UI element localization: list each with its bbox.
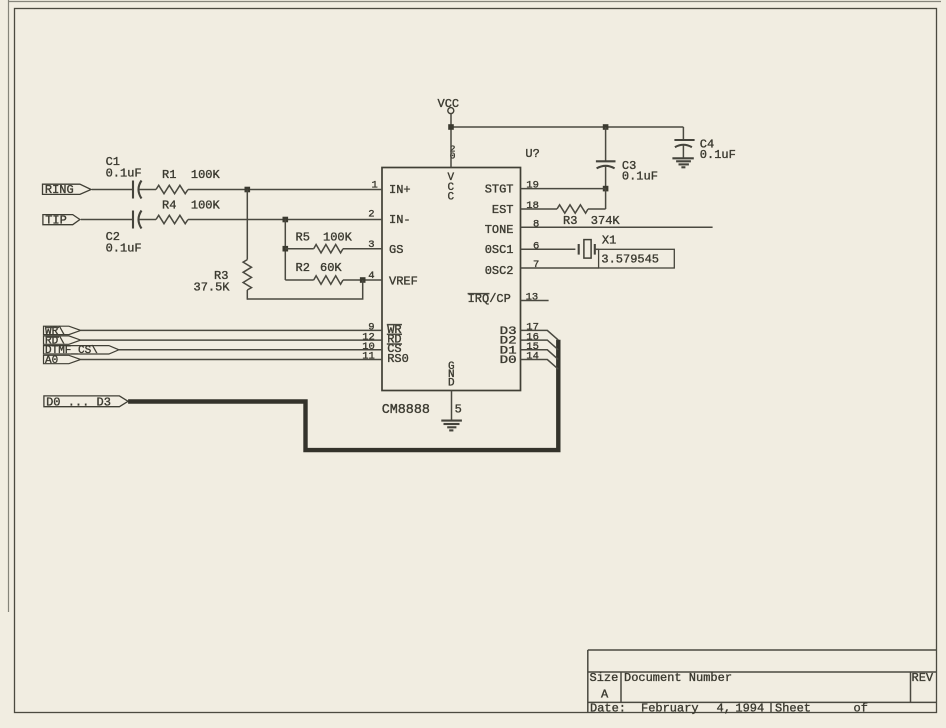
wire junction down to R3 xyxy=(246,190,248,260)
svg-text:Document Number: Document Number xyxy=(624,671,732,685)
wire VREF junction down and left to R3 xyxy=(247,280,362,299)
wire IRQ/CP pin 13 xyxy=(521,300,549,302)
wire A0 to pin 11 xyxy=(81,359,382,361)
power VCC xyxy=(438,97,460,127)
svg-text:D0 ... D3: D0 ... D3 xyxy=(46,395,111,409)
capacitor C1 xyxy=(106,155,142,199)
svg-text:IN+: IN+ xyxy=(389,183,411,197)
svg-text:R3: R3 xyxy=(563,214,577,228)
wire vertical junction to R5/R2 xyxy=(284,220,286,281)
svg-text:REV: REV xyxy=(912,671,934,685)
svg-text:February: February xyxy=(641,702,699,716)
svg-text:D: D xyxy=(448,378,455,390)
svg-text:R5: R5 xyxy=(296,231,310,245)
resistor R4 100K xyxy=(156,199,221,224)
wire C2 to R4 xyxy=(139,219,156,221)
svg-text:STGT: STGT xyxy=(485,183,514,197)
wire TONE pin 8 xyxy=(521,226,713,228)
capacitor C2 xyxy=(106,211,142,256)
bus D0..D3 xyxy=(128,340,558,450)
svg-text:0.1uF: 0.1uF xyxy=(622,170,658,184)
resistor R3 374K xyxy=(557,205,620,228)
svg-text:3.579545: 3.579545 xyxy=(601,252,659,266)
wire R3 to bottom rail xyxy=(246,290,248,300)
SCAN EDGES xyxy=(8,1,941,3)
junction R5 tap xyxy=(283,246,289,252)
wire D1 pin 15 xyxy=(521,350,559,360)
svg-text:of: of xyxy=(854,702,868,716)
svg-text:1994: 1994 xyxy=(735,702,764,716)
IC U? CM8888 xyxy=(382,147,540,418)
svg-text:R1: R1 xyxy=(162,168,176,182)
crystal X1 3.579545 xyxy=(579,234,675,268)
wire R5 to pin 3 xyxy=(343,248,382,250)
svg-text:VREF: VREF xyxy=(389,275,418,289)
svg-text:U?: U? xyxy=(525,147,539,161)
wire OSC2 pin 7 xyxy=(521,267,599,269)
svg-text:Size: Size xyxy=(590,671,619,685)
connector RING xyxy=(43,183,92,197)
resistor R1 100K xyxy=(156,168,221,194)
svg-text:RS0: RS0 xyxy=(387,352,409,366)
title block xyxy=(588,650,937,716)
svg-text:14: 14 xyxy=(526,351,539,363)
wire WR to pin 9 xyxy=(81,329,382,331)
wire VCC rail xyxy=(451,126,683,128)
wire STGT pin 19 xyxy=(521,188,606,190)
wire C1 to R1 xyxy=(139,189,156,191)
wire R3 to C3 node xyxy=(588,208,606,210)
svg-text:100K: 100K xyxy=(191,168,221,182)
connector D0 ... D3 xyxy=(44,395,128,409)
svg-text:374K: 374K xyxy=(591,214,621,228)
wire R5 left stub xyxy=(285,248,313,250)
svg-text:GS: GS xyxy=(389,243,403,257)
svg-text:X1: X1 xyxy=(602,234,616,248)
junction R1/R3 xyxy=(245,187,251,193)
svg-text:0.1uF: 0.1uF xyxy=(106,167,142,181)
resistor R5 100K xyxy=(296,231,353,253)
capacitor C3 xyxy=(596,127,658,189)
resistor R3 37.5K xyxy=(194,260,252,295)
wire EST pin 18 xyxy=(521,208,558,210)
IC left pin names xyxy=(387,183,418,366)
svg-text:18: 18 xyxy=(526,200,539,212)
svg-text:CM8888: CM8888 xyxy=(382,403,430,418)
ground under C4 xyxy=(672,158,693,167)
junction VREF xyxy=(360,277,366,283)
wire VCC stub to IC pin 20 xyxy=(450,127,452,168)
IC right pin names xyxy=(468,183,518,368)
svg-text:RING: RING xyxy=(45,183,74,197)
connector DTMF_CS xyxy=(44,345,119,357)
wire RD to pin 12 xyxy=(81,339,382,341)
svg-text:C: C xyxy=(448,191,455,203)
svg-text:0SC2: 0SC2 xyxy=(485,264,514,278)
svg-text:Sheet: Sheet xyxy=(775,702,811,716)
svg-text:0.1uF: 0.1uF xyxy=(700,148,736,162)
svg-text:8: 8 xyxy=(533,218,539,230)
svg-text:37.5K: 37.5K xyxy=(194,281,231,295)
junction C3 top xyxy=(603,124,609,130)
junction IN- xyxy=(283,217,289,223)
connector TIP xyxy=(43,213,80,227)
svg-text:6: 6 xyxy=(533,240,539,252)
svg-text:100K: 100K xyxy=(323,231,353,245)
wire D3 pin 17 xyxy=(521,330,559,340)
svg-text:5: 5 xyxy=(455,403,462,417)
wire DTMF_CS to pin 10 xyxy=(119,349,382,351)
wire C3 junction down to R3 xyxy=(605,189,607,209)
svg-text:0.1uF: 0.1uF xyxy=(106,242,142,256)
capacitor C4 xyxy=(674,127,735,162)
svg-text:EST: EST xyxy=(492,203,514,217)
IC pin name GND (stacked) xyxy=(448,361,455,390)
svg-text:100K: 100K xyxy=(191,199,221,213)
wire R4 to pin 2 xyxy=(188,219,382,221)
wire R2 to pin 4 xyxy=(343,279,382,281)
svg-text:A: A xyxy=(601,688,609,702)
svg-text:R2: R2 xyxy=(296,261,310,275)
svg-text:IN-: IN- xyxy=(389,213,411,227)
resistor R2 60K xyxy=(296,261,344,284)
connector RD xyxy=(44,336,81,348)
IC pin name VCC (stacked) xyxy=(448,172,455,204)
wire RING to C1 xyxy=(92,189,133,191)
wire R1 to pin 1 xyxy=(188,189,382,191)
svg-text:0SC1: 0SC1 xyxy=(485,243,514,257)
svg-text:60K: 60K xyxy=(320,261,342,275)
wire R2 left stub xyxy=(285,279,313,281)
wire GND pin 5 xyxy=(451,391,453,421)
svg-text:A0: A0 xyxy=(45,355,58,367)
svg-text:13: 13 xyxy=(526,292,539,304)
svg-text:Date:: Date: xyxy=(590,702,626,716)
ground under pin 5 xyxy=(441,421,462,431)
svg-text:4,: 4, xyxy=(717,702,731,716)
svg-text:11: 11 xyxy=(362,351,375,363)
connector A0 xyxy=(44,355,81,367)
wire TIP to C2 xyxy=(81,219,133,221)
wire D0 pin 14 xyxy=(521,360,559,370)
svg-text:7: 7 xyxy=(533,259,539,271)
svg-text:2: 2 xyxy=(368,209,374,221)
svg-text:D0: D0 xyxy=(500,355,517,367)
svg-text:R4: R4 xyxy=(162,199,176,213)
junction C3 bottom / STGT xyxy=(603,186,609,192)
svg-text:19: 19 xyxy=(526,180,539,192)
wire D2 pin 16 xyxy=(521,340,559,350)
IC pin numbers xyxy=(362,144,539,417)
wire OSC1 pin 6 xyxy=(521,248,576,250)
svg-text:TIP: TIP xyxy=(45,213,67,227)
svg-text:TONE: TONE xyxy=(485,223,514,237)
junction VCC stub xyxy=(448,124,454,130)
connector WR xyxy=(44,326,81,338)
